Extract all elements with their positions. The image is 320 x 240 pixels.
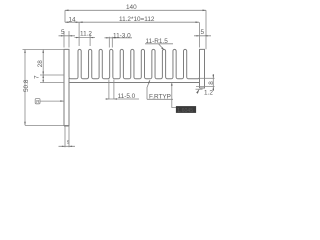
base bottom edge xyxy=(69,82,200,84)
arrows 50.8 xyxy=(24,50,26,54)
dim 11-5.0 line xyxy=(106,98,140,100)
svg-text:140: 140 xyxy=(126,4,137,11)
svg-text:28: 28 xyxy=(37,60,44,68)
dim 28 bottom extension xyxy=(40,74,64,76)
dim 140/right extension line xyxy=(205,10,207,49)
F.RTYP underline xyxy=(147,98,173,100)
arrow 11-R1.5 leader xyxy=(161,47,164,50)
svg-text:50.8: 50.8 xyxy=(23,79,30,92)
svg-text:11-5.0: 11-5.0 xyxy=(118,93,136,100)
datum leader xyxy=(40,100,64,102)
arrows 28 xyxy=(42,50,44,54)
svg-text:F.RTYP: F.RTYP xyxy=(149,94,171,101)
dim 50.8 bottom extension xyxy=(25,124,69,126)
bottom 5 dim line xyxy=(59,145,76,147)
svg-text:1.6045: 1.6045 xyxy=(177,108,193,114)
left 5 dim line xyxy=(59,35,76,37)
right foot arrow 1.2 xyxy=(196,89,199,94)
dim 11-3.0 text line xyxy=(105,37,133,39)
arrows bottom 5 xyxy=(62,146,65,147)
arrowheads xyxy=(24,10,214,148)
svg-text:11-R1.5: 11-R1.5 xyxy=(146,38,169,45)
datum box symbol xyxy=(35,99,40,104)
dim 7 line xyxy=(42,75,44,83)
right wall inner edge below slots xyxy=(199,78,201,88)
svg-text:8: 8 xyxy=(208,81,215,85)
arrows 11-5.0 xyxy=(106,98,109,99)
extension line fin1 center xyxy=(78,22,80,46)
right wall bottom lip line 1.2 xyxy=(196,88,203,90)
dim 7 bottom extension xyxy=(40,82,64,84)
svg-text:11-3.0: 11-3.0 xyxy=(113,32,131,39)
dim 11.2 line xyxy=(75,37,96,39)
svg-text:7: 7 xyxy=(34,75,41,79)
dim 140 line xyxy=(65,9,206,11)
extension line fin2 center xyxy=(89,34,91,47)
dim 8 line xyxy=(212,74,214,91)
arrows right 5 xyxy=(196,35,199,36)
svg-text:1.2: 1.2 xyxy=(204,89,213,96)
arrows left 5 xyxy=(61,35,64,36)
svg-text:14: 14 xyxy=(69,17,77,24)
dim 112 line xyxy=(65,21,199,23)
arrows 11.2 xyxy=(76,37,79,38)
dim 8 bottom extension xyxy=(196,86,215,88)
right wall inner extension up xyxy=(199,22,201,47)
leader 11-R1.5 xyxy=(159,44,165,50)
dim 11-3.0 extension lines on fin4 xyxy=(108,37,110,48)
arrows 8 xyxy=(213,75,215,79)
svg-text:11.2: 11.2 xyxy=(80,31,92,38)
arrows 140 xyxy=(65,10,69,12)
svg-text:5: 5 xyxy=(201,29,205,36)
dim 8 top extension xyxy=(200,77,215,79)
selected dim leader vertical xyxy=(172,83,176,107)
bottom 5 dim extension lines xyxy=(64,126,66,147)
arrow datum leader xyxy=(60,100,64,102)
heatsink profile comb outline xyxy=(64,49,205,126)
dim 28 line xyxy=(42,50,44,76)
selected dimension dark box xyxy=(176,106,196,114)
arrows 11-3.0 xyxy=(106,37,109,38)
dim 140 left extension xyxy=(64,10,66,22)
left wall inner edge below slots xyxy=(68,78,70,126)
arrows 7 xyxy=(42,75,44,78)
dim 50.8 line xyxy=(24,50,26,126)
F.RTYP leader xyxy=(147,80,150,99)
arrows 14/112 xyxy=(65,21,69,23)
right 5 dim line xyxy=(194,35,211,37)
left wall bottom edge xyxy=(64,125,69,127)
svg-text:5: 5 xyxy=(61,29,65,36)
arrow F.RTYP leader xyxy=(148,80,150,83)
left 5 dim extensions above wall xyxy=(63,31,65,48)
arrow selected-dim leader xyxy=(171,83,173,86)
dim 11-5.0 extension lines on fin4 root xyxy=(108,80,110,100)
svg-text:11.2*10=112: 11.2*10=112 xyxy=(119,16,155,23)
label 11-R1.5 underline xyxy=(145,43,173,45)
left dims: top extension line xyxy=(23,49,65,51)
